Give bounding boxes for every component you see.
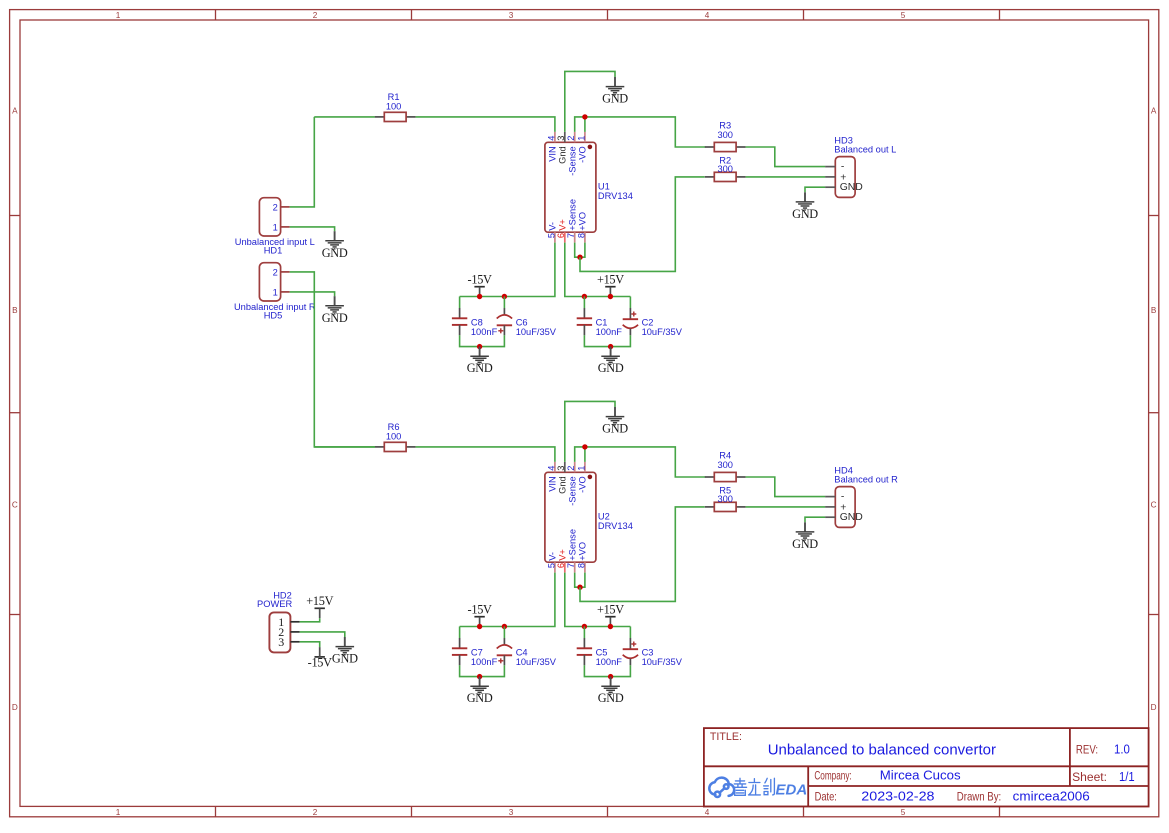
wire +Sense down xyxy=(575,243,580,258)
U1 pin1 marker dot xyxy=(588,145,593,150)
svg-text:Date:: Date: xyxy=(815,789,837,803)
capacitor C3 (polarized) xyxy=(623,638,638,665)
header HD2 POWER body xyxy=(269,612,290,652)
svg-text:+15V: +15V xyxy=(597,603,624,617)
capacitor C2 (polarized) xyxy=(623,308,638,335)
svg-text:2: 2 xyxy=(313,808,318,817)
wire HD5 pin2 down to R6 net xyxy=(290,272,375,447)
svg-text:2: 2 xyxy=(313,11,318,20)
svg-text:Drawn By:: Drawn By: xyxy=(957,790,1001,804)
resistor R5 xyxy=(705,502,746,511)
svg-text:Gnd: Gnd xyxy=(557,476,567,494)
wire C6 top lead xyxy=(503,297,505,309)
svg-text:1: 1 xyxy=(116,11,121,20)
wire U pin5 V- to -15V rail xyxy=(460,573,555,627)
label C3 value xyxy=(642,647,683,667)
HD1 Unbalanced input L pin numbers 2 1 xyxy=(273,202,278,232)
svg-text:R6: R6 xyxy=(388,422,400,432)
svg-text:4: 4 xyxy=(546,466,556,471)
U2 pin stubs bottom (5,6,7,8) xyxy=(555,562,585,572)
svg-text:5: 5 xyxy=(901,11,906,20)
power flag +15V at HD2 xyxy=(306,594,333,618)
U2 pin1 marker dot xyxy=(588,475,593,480)
svg-text:2: 2 xyxy=(566,136,576,141)
svg-text:TITLE:: TITLE: xyxy=(710,731,742,743)
svg-text:5: 5 xyxy=(546,563,556,568)
svg-text:4: 4 xyxy=(546,136,556,141)
U2 top pin numbers 4 3 2 1 xyxy=(546,466,586,471)
svg-text:-: - xyxy=(841,492,844,503)
svg-text:1: 1 xyxy=(116,808,121,817)
resistor R6 xyxy=(375,442,416,451)
svg-text:V+: V+ xyxy=(557,219,567,231)
junction -VO net Balanced out L xyxy=(582,114,587,119)
capacitor C6 (polarized) xyxy=(497,308,512,335)
wire C5 C3 bottom leads to ground rail xyxy=(584,665,630,676)
ground at HD1 pin1 xyxy=(322,231,348,260)
label HD3 Balanced out L xyxy=(834,135,896,154)
label R2 value xyxy=(717,156,733,175)
wire R5 to header plus pin xyxy=(746,506,826,508)
wire R1 to U pin4 VIN xyxy=(416,117,555,132)
U2 top pin names VIN Gnd -Sense -VO xyxy=(548,476,588,505)
HD2 pin stubs xyxy=(290,622,299,642)
svg-text:GND: GND xyxy=(840,182,863,193)
ground under C1 C2 xyxy=(598,347,624,376)
junction +15V stem xyxy=(608,294,613,299)
wire HD3 GND pin to ground xyxy=(805,187,825,192)
svg-text:100: 100 xyxy=(386,102,402,112)
svg-text:V-: V- xyxy=(548,222,558,231)
svg-text:1: 1 xyxy=(576,466,586,471)
wire +VO to R2 xyxy=(580,177,705,272)
ground under C5 C3 xyxy=(598,677,624,706)
power flag -15V xyxy=(468,273,492,297)
svg-text:GND: GND xyxy=(322,246,348,260)
svg-text:Unbalanced to balanced convert: Unbalanced to balanced convertor xyxy=(768,741,996,758)
U2 pin stubs top (4,3,2,1) xyxy=(555,462,585,472)
svg-text:B: B xyxy=(1151,306,1157,315)
ground at HD2 pin2 xyxy=(332,637,358,666)
wire -Sense / -VO tie xyxy=(575,117,706,147)
svg-text:GND: GND xyxy=(598,361,624,375)
svg-text:300: 300 xyxy=(717,164,733,174)
svg-text:100nF: 100nF xyxy=(596,327,623,337)
svg-text:GND: GND xyxy=(792,537,818,551)
junction -VO net Balanced out R xyxy=(582,444,587,449)
label R3 value xyxy=(717,121,733,141)
label C5 value xyxy=(596,647,623,667)
ground under C8 C6 xyxy=(467,347,493,376)
EasyEDA logo text xyxy=(733,778,774,795)
header HD4 body xyxy=(835,487,855,528)
label U1 DRV134 xyxy=(598,182,633,202)
svg-text:GND: GND xyxy=(602,422,628,436)
svg-text:2: 2 xyxy=(273,202,278,212)
svg-text:3: 3 xyxy=(509,808,514,817)
svg-text:1: 1 xyxy=(273,222,278,232)
U1 pin stubs bottom (5,6,7,8) xyxy=(555,232,585,242)
junction C4 top xyxy=(502,624,507,629)
junction right cap ground xyxy=(608,674,613,679)
HD2 pin numbers 1 2 3 xyxy=(278,615,284,649)
svg-text:GND: GND xyxy=(467,361,493,375)
junction -15V stem xyxy=(477,624,482,629)
capacitor C5 xyxy=(577,638,592,665)
svg-text:8: 8 xyxy=(576,563,586,568)
junction left cap ground xyxy=(477,344,482,349)
junction C1 top xyxy=(582,294,587,299)
frame column numbers top xyxy=(116,11,906,20)
title block dividers xyxy=(704,728,1149,806)
power flag -15V at HD2 xyxy=(308,647,332,669)
svg-text:+VO: +VO xyxy=(578,212,588,231)
frame row letters left xyxy=(12,107,18,713)
svg-text:C4: C4 xyxy=(516,647,528,657)
junction +VO net xyxy=(577,255,582,260)
junction left cap ground xyxy=(477,674,482,679)
junction -15V stem xyxy=(477,294,482,299)
frame row ticks left xyxy=(10,216,20,615)
svg-text:-15V: -15V xyxy=(468,603,492,617)
label C2 value xyxy=(642,317,683,337)
frame column numbers bottom xyxy=(116,808,906,817)
svg-text:2: 2 xyxy=(273,267,278,277)
ground at U2 pin3 xyxy=(602,407,628,436)
svg-text:B: B xyxy=(12,306,18,315)
label R5 value xyxy=(717,486,733,505)
svg-text:300: 300 xyxy=(717,460,733,470)
label HD4 Balanced out R xyxy=(834,465,898,484)
svg-text:R1: R1 xyxy=(388,92,400,102)
junction +15V stem xyxy=(608,624,613,629)
frame row ticks right xyxy=(1149,216,1159,615)
svg-text:7: 7 xyxy=(566,233,576,238)
wire C1 top lead xyxy=(583,297,585,309)
label R4 value xyxy=(717,451,733,471)
header HD3 body xyxy=(835,157,855,198)
wire C4 top lead xyxy=(503,627,505,639)
wire U pin6 V+ to +15V rail xyxy=(565,573,631,627)
svg-text:3: 3 xyxy=(278,635,284,649)
wire HD2 pin1 to +15V xyxy=(300,618,320,622)
svg-text:-15V: -15V xyxy=(308,656,332,670)
wire U pin6 V+ to +15V rail xyxy=(565,243,631,297)
svg-text:+VO: +VO xyxy=(578,542,588,561)
label C1 value xyxy=(596,317,623,337)
svg-text:300: 300 xyxy=(717,494,733,504)
wire R4 to header minus pin xyxy=(746,477,826,497)
svg-text:100nF: 100nF xyxy=(471,327,498,337)
svg-text:7: 7 xyxy=(566,563,576,568)
label C6 value xyxy=(516,317,557,337)
HD4 pin names - + GND xyxy=(840,492,863,524)
svg-text:1.0: 1.0 xyxy=(1114,743,1130,757)
junction +VO net xyxy=(577,585,582,590)
wire -VO up xyxy=(584,447,586,462)
wire -VO up xyxy=(584,117,586,132)
svg-text:GND: GND xyxy=(598,691,624,705)
wire rail down left to C7 xyxy=(459,627,461,639)
capacitor C8 xyxy=(452,308,467,335)
svg-text:5: 5 xyxy=(901,808,906,817)
U1 top pin numbers 4 3 2 1 xyxy=(546,136,586,141)
label HD1 Unbalanced input L Unbalanced input L xyxy=(235,237,315,256)
title block outline xyxy=(704,728,1149,806)
svg-text:100nF: 100nF xyxy=(471,657,498,667)
svg-text:4: 4 xyxy=(705,808,710,817)
svg-text:C: C xyxy=(1151,501,1157,510)
wire rail down right to C3 xyxy=(629,627,631,639)
svg-text:POWER: POWER xyxy=(257,599,292,609)
wire C1 C2 bottom leads to ground rail xyxy=(584,335,630,346)
wire input to R1 xyxy=(314,116,375,118)
svg-text:6: 6 xyxy=(556,563,566,568)
capacitor C4 (polarized) xyxy=(497,638,512,665)
ground at HD3 xyxy=(792,192,818,221)
svg-text:Company:: Company: xyxy=(814,769,851,783)
svg-text:A: A xyxy=(1151,107,1157,116)
svg-text:C2: C2 xyxy=(642,317,654,327)
svg-text:C7: C7 xyxy=(471,647,483,657)
label R6 value xyxy=(386,422,402,442)
svg-text:C3: C3 xyxy=(642,647,654,657)
svg-text:DRV134: DRV134 xyxy=(598,521,633,531)
svg-text:C8: C8 xyxy=(471,317,483,327)
svg-text:+Sense: +Sense xyxy=(567,199,577,231)
svg-text:3: 3 xyxy=(509,11,514,20)
svg-text:Mircea Cucos: Mircea Cucos xyxy=(880,768,961,783)
U1 top pin names VIN Gnd -Sense -VO xyxy=(548,146,588,175)
wire R6 to U pin4 VIN xyxy=(416,447,555,462)
wire +Sense down xyxy=(575,573,580,588)
frame column ticks bottom xyxy=(216,806,1000,816)
wire C7 bottom leads to ground rail xyxy=(460,665,505,676)
power flag -15V xyxy=(468,603,492,627)
label HD2 POWER xyxy=(257,591,292,609)
svg-text:2: 2 xyxy=(566,466,576,471)
svg-text:Balanced out L: Balanced out L xyxy=(834,145,896,155)
svg-text:1: 1 xyxy=(273,287,278,297)
wire HD2 pin3 to -15V xyxy=(300,642,320,647)
wire HD1 pin2 up to R1 net xyxy=(290,117,315,207)
ground at U1 pin3 xyxy=(602,77,628,106)
HD1 Unbalanced input L pin stubs xyxy=(281,207,290,227)
U2 bottom pin names V- V+ +Sense +VO xyxy=(548,529,588,561)
svg-text:R4: R4 xyxy=(719,451,731,461)
junction C5 top xyxy=(582,624,587,629)
svg-text:-Sense: -Sense xyxy=(567,476,577,505)
frame column ticks top xyxy=(216,10,1000,20)
svg-text:1/1: 1/1 xyxy=(1119,770,1135,784)
svg-text:HD5: HD5 xyxy=(264,311,283,321)
ground at HD4 xyxy=(792,522,818,551)
svg-text:Balanced out R: Balanced out R xyxy=(834,475,898,485)
U2 bottom pin numbers 5 6 7 8 xyxy=(546,563,586,568)
svg-text:V+: V+ xyxy=(557,549,567,561)
HD5 Unbalanced input R pin stubs xyxy=(281,272,290,292)
ground at HD5 pin1 xyxy=(322,296,348,325)
HD3 pin names - + GND xyxy=(840,162,863,194)
svg-text:1: 1 xyxy=(576,136,586,141)
svg-text:10uF/35V: 10uF/35V xyxy=(642,657,683,667)
U1 bottom pin numbers 5 6 7 8 xyxy=(546,233,586,238)
header HD5 Unbalanced input R body xyxy=(259,263,280,301)
resistor R4 xyxy=(705,472,746,481)
wire +VO down xyxy=(580,573,585,588)
label HD5 Unbalanced input R Unbalanced input R xyxy=(234,302,316,321)
wire +VO down xyxy=(580,243,585,258)
svg-text:GND: GND xyxy=(467,691,493,705)
svg-text:2023-02-28: 2023-02-28 xyxy=(861,788,934,803)
svg-text:V-: V- xyxy=(548,552,558,561)
svg-text:cmircea2006: cmircea2006 xyxy=(1013,788,1090,803)
capacitor C1 xyxy=(577,308,592,335)
svg-text:C6: C6 xyxy=(516,317,528,327)
label R1 value xyxy=(386,92,402,112)
power flag +15V xyxy=(597,273,624,297)
svg-text:300: 300 xyxy=(717,130,733,140)
resistor R1 xyxy=(375,112,416,121)
svg-text:Gnd: Gnd xyxy=(557,146,567,164)
wire +VO to R5 xyxy=(580,507,705,602)
wire HD4 GND pin to ground xyxy=(805,517,825,522)
power flag +15V xyxy=(597,603,624,627)
wire R3 to header minus pin xyxy=(746,147,826,167)
wire C8 bottom leads to ground rail xyxy=(460,335,505,346)
wire HD1 pin1 to ground xyxy=(290,227,335,231)
svg-text:5: 5 xyxy=(546,233,556,238)
wire -Sense / -VO tie xyxy=(575,447,706,477)
wire C5 top lead xyxy=(583,627,585,639)
header HD1 Unbalanced input L body xyxy=(259,198,280,236)
svg-text:D: D xyxy=(1151,703,1157,712)
svg-text:C1: C1 xyxy=(596,317,608,327)
op-amp driver U1 DRV134 body xyxy=(545,142,596,232)
svg-text:4: 4 xyxy=(705,11,710,20)
junction C6 top xyxy=(502,294,507,299)
svg-text:GND: GND xyxy=(840,512,863,523)
label U2 DRV134 xyxy=(598,512,633,532)
label C7 value xyxy=(471,647,498,667)
svg-text:-Sense: -Sense xyxy=(567,146,577,175)
svg-text:10uF/35V: 10uF/35V xyxy=(642,327,683,337)
svg-text:Sheet:: Sheet: xyxy=(1072,770,1107,784)
svg-text:U1: U1 xyxy=(598,182,610,192)
svg-text:DRV134: DRV134 xyxy=(598,191,633,201)
svg-text:R3: R3 xyxy=(719,121,731,131)
svg-text:100nF: 100nF xyxy=(596,657,623,667)
EasyEDA logo cloud icon xyxy=(709,778,734,797)
svg-text:-VO: -VO xyxy=(578,476,588,493)
wire rail down right to C2 xyxy=(629,297,631,309)
svg-text:C: C xyxy=(12,501,18,510)
op-amp driver U2 DRV134 body xyxy=(545,472,596,562)
svg-text:GND: GND xyxy=(602,92,628,106)
svg-text:HD1: HD1 xyxy=(264,246,283,256)
ground under C7 C4 xyxy=(467,677,493,706)
svg-text:GND: GND xyxy=(322,311,348,325)
U1 bottom pin names V- V+ +Sense +VO xyxy=(548,199,588,231)
svg-text:VIN: VIN xyxy=(548,146,558,162)
HD3 pin stubs xyxy=(825,167,835,188)
svg-text:D: D xyxy=(12,703,18,712)
wire U pin5 V- to -15V rail xyxy=(460,243,555,297)
svg-text:C5: C5 xyxy=(596,647,608,657)
wire R2 to header plus pin xyxy=(746,176,826,178)
resistor R2 xyxy=(705,172,746,181)
svg-text:EDA: EDA xyxy=(776,782,808,799)
svg-text:REV:: REV: xyxy=(1076,743,1098,757)
svg-text:+15V: +15V xyxy=(306,594,333,608)
wire rail down left to C8 xyxy=(459,297,461,309)
wire input to R6 xyxy=(314,446,375,448)
wire HD5 pin1 to ground xyxy=(290,292,335,296)
svg-text:-VO: -VO xyxy=(578,146,588,163)
svg-text:U2: U2 xyxy=(598,512,610,522)
U1 pin stubs top (4,3,2,1) xyxy=(555,132,585,142)
HD5 Unbalanced input R pin numbers 2 1 xyxy=(273,267,278,297)
svg-text:GND: GND xyxy=(332,652,358,666)
wire U pin3 Gnd to GND symbol xyxy=(565,401,615,462)
wire HD2 pin2 to ground xyxy=(300,632,345,637)
svg-text:3: 3 xyxy=(556,136,566,141)
HD4 pin stubs xyxy=(825,497,835,518)
label C4 value xyxy=(516,647,557,667)
svg-text:8: 8 xyxy=(576,233,586,238)
svg-text:+15V: +15V xyxy=(597,273,624,287)
frame row letters right xyxy=(1151,107,1157,713)
capacitor C7 xyxy=(452,638,467,665)
label C8 value xyxy=(471,317,498,337)
svg-text:+Sense: +Sense xyxy=(567,529,577,561)
resistor R3 xyxy=(705,142,746,151)
svg-text:A: A xyxy=(12,107,18,116)
wire U pin3 Gnd to GND symbol xyxy=(565,71,615,131)
svg-text:6: 6 xyxy=(556,233,566,238)
svg-text:3: 3 xyxy=(556,466,566,471)
svg-text:10uF/35V: 10uF/35V xyxy=(516,657,557,667)
svg-text:100: 100 xyxy=(386,432,402,442)
svg-text:VIN: VIN xyxy=(548,476,558,492)
svg-text:10uF/35V: 10uF/35V xyxy=(516,327,557,337)
svg-text:-15V: -15V xyxy=(468,273,492,287)
svg-text:-: - xyxy=(841,162,844,173)
svg-text:GND: GND xyxy=(792,207,818,221)
junction right cap ground xyxy=(608,344,613,349)
